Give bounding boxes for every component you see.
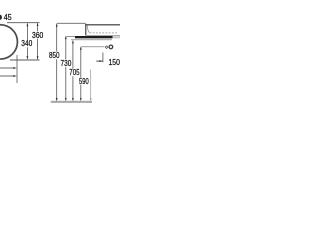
svg-text:150: 150 bbox=[109, 58, 121, 67]
countertop continuation to wall bbox=[113, 36, 121, 38]
countertop underside extension line bbox=[71, 39, 112, 41]
svg-text:45: 45 bbox=[4, 13, 12, 22]
dim 150 bbox=[96, 60, 102, 62]
dim line 730 bbox=[65, 37, 67, 60]
vertical reference line below circle bbox=[16, 55, 18, 83]
dim line 340 bbox=[26, 24, 28, 40]
left leader arrow 2 bbox=[0, 75, 15, 77]
dim line 850 bbox=[56, 24, 58, 51]
dim line 360 bbox=[37, 23, 39, 31]
countertop slab (dark) bbox=[75, 36, 113, 38]
svg-text:730: 730 bbox=[61, 59, 72, 68]
left leader arrow 1 bbox=[0, 67, 15, 69]
top extension line bbox=[7, 22, 40, 24]
supply diamond symbol bbox=[105, 46, 108, 49]
rim connector line (side view) bbox=[57, 22, 86, 24]
svg-text:340: 340 bbox=[21, 39, 32, 48]
bowl profile curve bbox=[87, 26, 89, 33]
countertop surface line left bbox=[66, 35, 75, 37]
supply extension line bbox=[81, 46, 104, 48]
dim line 590 bbox=[80, 47, 82, 77]
label Ø45 (clipped at left edge) bbox=[0, 15, 2, 20]
svg-text:850: 850 bbox=[49, 51, 60, 60]
svg-text:590: 590 bbox=[79, 77, 89, 86]
svg-text:360: 360 bbox=[32, 31, 44, 40]
basin rim circle (top view) bbox=[0, 25, 17, 59]
bottom extension line bbox=[10, 59, 40, 61]
floor bar bbox=[51, 101, 92, 103]
svg-text:705: 705 bbox=[69, 68, 80, 77]
bowl bottom dashed line bbox=[90, 32, 119, 34]
auxiliary line to floor bbox=[90, 70, 92, 100]
basin side-view body bbox=[85, 24, 87, 35]
drain vertical line bbox=[102, 52, 104, 62]
dim line 705 bbox=[72, 41, 74, 69]
supply ring symbol bbox=[108, 44, 113, 49]
